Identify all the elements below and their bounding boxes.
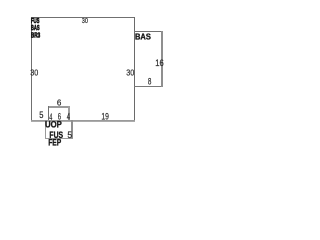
svg-text:6: 6 xyxy=(57,98,62,107)
svg-text:8: 8 xyxy=(148,76,151,86)
svg-text:UOP: UOP xyxy=(45,119,62,130)
svg-text:BR3: BR3 xyxy=(31,31,41,39)
svg-text:19: 19 xyxy=(101,111,109,121)
svg-text:BAS: BAS xyxy=(135,32,151,41)
svg-text:30: 30 xyxy=(126,68,134,77)
svg-text:FEP: FEP xyxy=(48,137,62,147)
svg-text:16: 16 xyxy=(155,58,164,69)
svg-text:30: 30 xyxy=(82,17,89,25)
svg-text:5: 5 xyxy=(67,130,72,140)
svg-text:5: 5 xyxy=(39,110,44,121)
svg-text:30: 30 xyxy=(30,68,38,77)
